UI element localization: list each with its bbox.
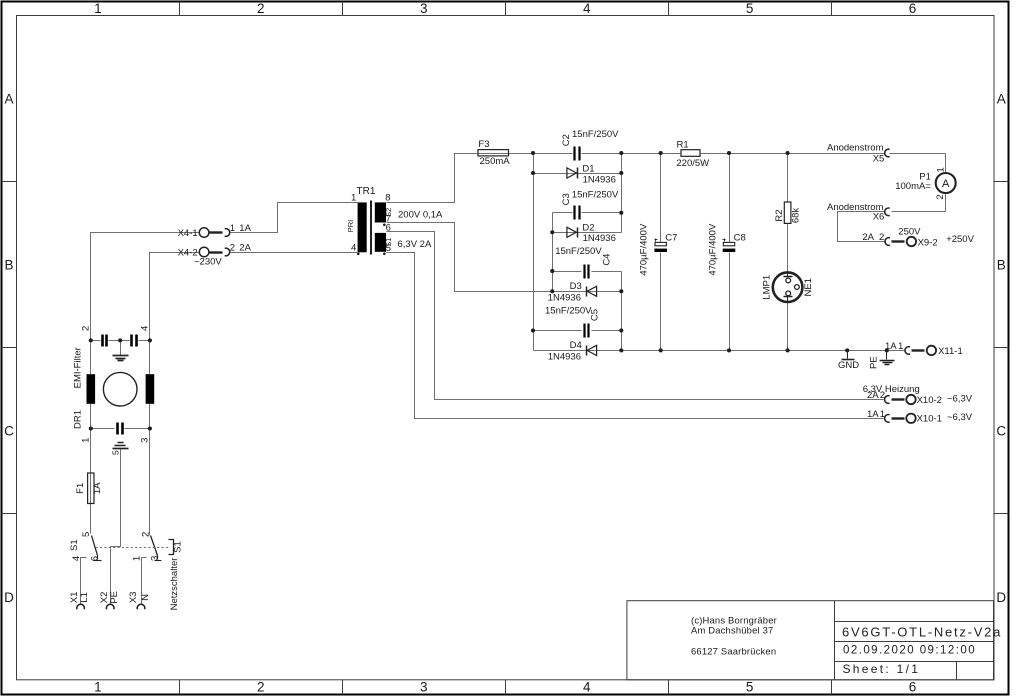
svg-text:2: 2 xyxy=(230,242,235,253)
svg-text:1N4936: 1N4936 xyxy=(548,292,581,303)
svg-text:X11-1: X11-1 xyxy=(938,346,963,357)
svg-text:470µF/400V: 470µF/400V xyxy=(707,223,718,276)
svg-text:X6: X6 xyxy=(873,212,885,223)
svg-text:6: 6 xyxy=(90,556,101,561)
svg-text:PE: PE xyxy=(868,356,879,369)
svg-text:A: A xyxy=(997,91,1006,106)
svg-text:C8: C8 xyxy=(734,233,746,244)
svg-text:4: 4 xyxy=(583,1,591,16)
svg-text:3: 3 xyxy=(420,680,428,695)
svg-text:15nF/250V: 15nF/250V xyxy=(545,306,592,317)
svg-text:1: 1 xyxy=(131,556,142,561)
svg-text:5: 5 xyxy=(746,680,754,695)
svg-text:02.09.2020 09:12:00: 02.09.2020 09:12:00 xyxy=(843,645,976,657)
svg-text:1: 1 xyxy=(898,341,903,352)
svg-text:100mA=: 100mA= xyxy=(895,181,931,192)
svg-text:2: 2 xyxy=(141,532,152,537)
svg-text:DR1: DR1 xyxy=(72,410,83,429)
svg-text:~6,3V: ~6,3V xyxy=(947,393,973,404)
svg-text:Am Dachshübel 37: Am Dachshübel 37 xyxy=(691,625,773,636)
svg-text:5: 5 xyxy=(81,532,92,537)
svg-text:2A: 2A xyxy=(239,242,251,253)
svg-text:220/5W: 220/5W xyxy=(676,158,709,169)
svg-text:LMP1: LMP1 xyxy=(762,275,773,300)
svg-text:C7: C7 xyxy=(665,233,677,244)
svg-text:3: 3 xyxy=(140,438,151,443)
svg-text:Netzschalter: Netzschalter xyxy=(169,558,180,611)
svg-text:B: B xyxy=(4,258,13,273)
svg-text:S1: S1 xyxy=(173,541,184,553)
svg-text:4: 4 xyxy=(71,556,82,561)
svg-text:C2: C2 xyxy=(561,134,572,146)
svg-text:R1: R1 xyxy=(677,140,689,151)
svg-text:C: C xyxy=(4,424,14,439)
svg-text:470µF/400V: 470µF/400V xyxy=(639,223,650,276)
svg-text:~6,3V: ~6,3V xyxy=(947,412,973,423)
svg-text:6: 6 xyxy=(909,680,917,695)
svg-text:F3: F3 xyxy=(478,139,489,150)
svg-text:8: 8 xyxy=(385,192,390,203)
svg-text:X5: X5 xyxy=(873,154,885,165)
svg-text:GND: GND xyxy=(838,360,859,371)
svg-text:EMI-Filter: EMI-Filter xyxy=(72,347,83,388)
svg-text:2A: 2A xyxy=(867,390,879,401)
svg-text:15nF/250V: 15nF/250V xyxy=(572,129,619,140)
svg-text:4: 4 xyxy=(140,326,151,331)
svg-text:D4: D4 xyxy=(570,340,582,351)
svg-text:F1: F1 xyxy=(75,483,86,494)
svg-text:200V 0,1A: 200V 0,1A xyxy=(398,210,443,221)
svg-text:1A: 1A xyxy=(867,409,879,420)
svg-text:R2: R2 xyxy=(774,209,785,221)
svg-text:C3: C3 xyxy=(561,193,572,205)
svg-text:X4-1: X4-1 xyxy=(178,228,198,239)
svg-text:68k: 68k xyxy=(791,208,802,224)
svg-text:1: 1 xyxy=(351,192,356,203)
svg-text:D3: D3 xyxy=(570,281,582,292)
svg-text:2: 2 xyxy=(257,680,265,695)
svg-text:PRI: PRI xyxy=(346,220,355,233)
svg-text:4: 4 xyxy=(351,242,356,253)
svg-text:2: 2 xyxy=(935,194,946,199)
svg-text:PE: PE xyxy=(109,591,120,604)
svg-text:D: D xyxy=(4,590,14,605)
svg-text:5: 5 xyxy=(111,450,121,455)
svg-text:Anodenstrom: Anodenstrom xyxy=(827,143,884,154)
svg-text:A: A xyxy=(942,178,950,190)
svg-text:X9-2: X9-2 xyxy=(918,237,938,248)
svg-text:6V6GT-OTL-Netz-V2a: 6V6GT-OTL-Netz-V2a xyxy=(842,624,1002,639)
svg-text:B: B xyxy=(997,258,1006,273)
svg-text:L1: L1 xyxy=(79,592,90,603)
svg-text:66127 Saarbrücken: 66127 Saarbrücken xyxy=(691,645,776,656)
svg-text:6: 6 xyxy=(386,223,391,234)
svg-text:2: 2 xyxy=(81,326,92,331)
svg-text:6: 6 xyxy=(909,1,917,16)
svg-text:3: 3 xyxy=(420,1,428,16)
svg-text:1: 1 xyxy=(230,223,235,234)
svg-text:4: 4 xyxy=(583,680,591,695)
svg-text:1: 1 xyxy=(81,438,92,443)
svg-text:D: D xyxy=(996,590,1006,605)
svg-text:6,3V 2A: 6,3V 2A xyxy=(398,239,432,250)
svg-text:S1: S1 xyxy=(69,539,80,551)
svg-text:5: 5 xyxy=(746,1,754,16)
svg-text:S1: S1 xyxy=(384,238,393,247)
svg-text:TR1: TR1 xyxy=(357,186,376,197)
svg-text:S2: S2 xyxy=(384,208,393,217)
svg-text:1N4936: 1N4936 xyxy=(548,352,581,363)
svg-text:2A: 2A xyxy=(862,232,874,243)
svg-text:Sheet: 1/1: Sheet: 1/1 xyxy=(843,662,921,676)
svg-text:C: C xyxy=(996,424,1006,439)
svg-text:1A: 1A xyxy=(92,482,103,494)
svg-text:~230V: ~230V xyxy=(194,257,222,268)
svg-text:N: N xyxy=(140,594,151,601)
svg-text:250mA: 250mA xyxy=(480,156,511,167)
svg-text:D2: D2 xyxy=(582,222,594,233)
svg-text:1: 1 xyxy=(94,1,102,16)
svg-text:1N4936: 1N4936 xyxy=(583,174,616,185)
svg-text:1: 1 xyxy=(94,680,102,695)
svg-text:+250V: +250V xyxy=(946,234,974,245)
svg-text:1A: 1A xyxy=(885,341,897,352)
svg-text:1: 1 xyxy=(935,167,946,172)
svg-text:250V: 250V xyxy=(898,227,921,238)
svg-text:NE1: NE1 xyxy=(803,278,814,296)
svg-text:15nF/250V: 15nF/250V xyxy=(572,190,619,201)
svg-text:D1: D1 xyxy=(582,163,594,174)
svg-text:C4: C4 xyxy=(602,254,613,266)
svg-text:2: 2 xyxy=(257,1,265,16)
svg-text:1N4936: 1N4936 xyxy=(583,233,616,244)
svg-text:A: A xyxy=(4,91,13,106)
svg-text:3: 3 xyxy=(150,556,161,561)
svg-text:2: 2 xyxy=(879,232,884,243)
svg-text:X10-2: X10-2 xyxy=(917,395,942,406)
svg-text:15nF/250V: 15nF/250V xyxy=(555,246,602,257)
svg-text:X3: X3 xyxy=(128,592,139,604)
svg-text:X10-1: X10-1 xyxy=(917,414,942,425)
svg-text:1A: 1A xyxy=(239,223,251,234)
